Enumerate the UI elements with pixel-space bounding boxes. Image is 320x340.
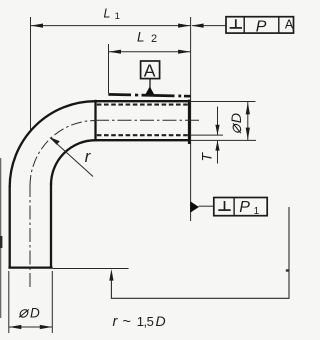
svg-text:1,5: 1,5 <box>137 314 154 329</box>
wire: ΦD bottom extension line <box>190 139 256 141</box>
leader from bottom end face to frame line (arrow up, L route) <box>109 207 289 298</box>
svg-text:⌀D: ⌀D <box>18 304 40 322</box>
scan artifact: dark left edge <box>0 158 1 318</box>
tube: horizontal centerline (chain thin) <box>95 119 200 121</box>
junction tick on vertical leader <box>286 269 289 271</box>
leader to tolerance frame (top right) <box>191 24 226 28</box>
tube: vertical centerline (chain thin) <box>29 186 31 287</box>
tube: horizontal straight section outline <box>94 100 189 144</box>
svg-text:1: 1 <box>254 206 260 217</box>
svg-text:⌀D: ⌀D <box>227 113 245 134</box>
feature control frame: perpendicularity P A <box>226 17 294 36</box>
svg-text:L: L <box>104 6 111 20</box>
tube: bend outer arc <box>10 101 96 187</box>
svg-text:L: L <box>137 29 145 44</box>
tube: bend inner arc <box>51 140 96 185</box>
datum target triangle on end-face extension <box>190 201 199 212</box>
dimension ΦD (right side, rotated) <box>227 102 250 140</box>
feature frame: perpendicularity P1 <box>214 198 267 217</box>
wire: L1 left extension line (tube vertical axis extension) <box>30 17 32 132</box>
svg-text:~: ~ <box>123 314 131 330</box>
perpendicularity symbol <box>224 201 226 210</box>
partial datum feature: thick chain line above tube <box>108 94 190 96</box>
dimension L2 <box>109 29 191 93</box>
note: r ~ 1,5 D <box>113 313 166 330</box>
wire: right extension line of tube end face <box>190 17 192 221</box>
wire: ΦD top extension line <box>190 101 256 103</box>
svg-text:P: P <box>256 19 267 36</box>
leader: bend radius r with arrow <box>49 137 93 177</box>
wire: inner wall extension line for T <box>190 134 223 136</box>
leader wire to P1 frame <box>199 205 214 207</box>
svg-text:A: A <box>285 17 294 31</box>
dimension ΦD (bottom) <box>9 271 53 333</box>
wire: bottom end face extension line <box>53 268 129 270</box>
perpendicularity symbol <box>235 19 237 27</box>
svg-text:2: 2 <box>151 33 157 45</box>
svg-text:P: P <box>239 199 250 216</box>
tube: vertical straight section outline <box>8 183 52 269</box>
svg-text:T: T <box>199 152 215 162</box>
dimension T wall thickness (rotated label) <box>199 107 220 164</box>
svg-text:A: A <box>144 60 156 80</box>
svg-text:D: D <box>156 313 166 329</box>
dimension L1 <box>31 6 191 27</box>
svg-text:1: 1 <box>115 11 120 22</box>
tube: hidden inner wall lines (dashed) <box>97 105 188 136</box>
tube: bend centerline arc (chain thin) <box>30 121 96 187</box>
datum A symbol (box + leader + filled triangle) <box>141 60 160 96</box>
